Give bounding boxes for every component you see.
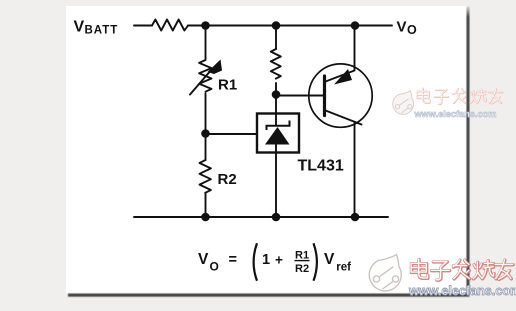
- svg-text:1: 1: [262, 252, 270, 268]
- svg-text:V: V: [198, 251, 209, 268]
- svg-text:V: V: [74, 19, 85, 36]
- svg-text:www.elecfans.com: www.elecfans.com: [414, 109, 497, 119]
- svg-text:V: V: [324, 251, 335, 268]
- svg-text:+: +: [275, 253, 283, 268]
- svg-text:=: =: [229, 252, 237, 268]
- svg-text:ref: ref: [336, 262, 351, 274]
- svg-text:TL431: TL431: [298, 158, 344, 175]
- svg-text:R2: R2: [295, 263, 309, 275]
- svg-text:O: O: [407, 23, 417, 37]
- svg-text:www.elecfans.com: www.elecfans.com: [408, 284, 516, 298]
- svg-text:O: O: [210, 260, 219, 274]
- svg-text:V: V: [397, 19, 407, 36]
- svg-text:R1: R1: [218, 77, 237, 94]
- svg-text:R1: R1: [295, 250, 309, 262]
- svg-text:BATT: BATT: [85, 25, 119, 37]
- svg-text:R2: R2: [218, 171, 237, 188]
